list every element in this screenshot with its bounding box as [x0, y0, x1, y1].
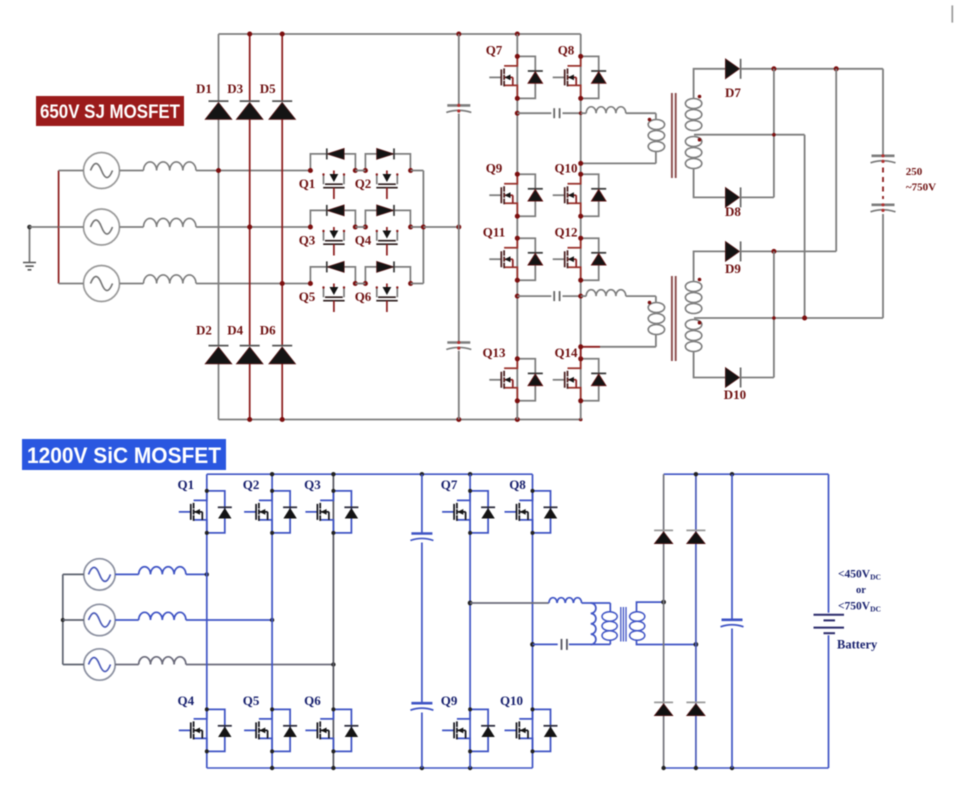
wire phase to leg — [186, 664, 334, 666]
MOSFET Q10 (bottom) — [505, 709, 558, 751]
svg-text:~750V: ~750V — [906, 182, 936, 194]
wire midpoint to C9 — [533, 643, 558, 645]
wire column D3/D4 — [249, 34, 251, 420]
T1 primary polarity dot — [648, 118, 652, 122]
node — [578, 54, 583, 59]
wire output cap to minus — [882, 214, 884, 318]
node — [578, 172, 583, 177]
wire C4 to leg B2 — [563, 295, 582, 297]
svg-text:250: 250 — [906, 166, 923, 178]
wire leg column Q2/Q5 — [271, 474, 273, 768]
title label 1200V SiC MOSFET — [22, 439, 226, 470]
wire D8 to rail riser — [741, 69, 774, 198]
wire — [59, 226, 84, 228]
capacitor C4 (series) — [553, 291, 555, 301]
capacitor C8 (DC link bottom) — [411, 702, 432, 705]
wire phase to rectifier bus — [196, 170, 310, 172]
wire bottom DC rail (bottom circuit) — [207, 767, 533, 769]
junction — [456, 225, 461, 230]
svg-text:D10: D10 — [724, 387, 746, 402]
wire rectifier top rail — [664, 473, 829, 475]
bidirectional switch Q3 cell — [310, 205, 355, 256]
capacitor C3 (series) — [553, 108, 555, 118]
wire leg column Q7/Q9 — [469, 474, 471, 768]
svg-text:Q14: Q14 — [554, 345, 578, 360]
wire — [63, 573, 84, 575]
wire filter cap column — [731, 474, 733, 768]
wire rectifier bottom rail — [664, 767, 829, 769]
node — [531, 489, 535, 493]
capacitor C10 (output filter) — [722, 618, 743, 621]
node leg B1 return — [578, 161, 583, 166]
wire center-tap riser — [804, 135, 806, 318]
wire phase to leg — [186, 619, 272, 621]
junction — [771, 66, 776, 71]
wire leg A2 to C4 — [517, 295, 551, 297]
MOSFET Q8 — [553, 56, 607, 98]
screen edge artifact — [951, 5, 953, 22]
wire leg A1 to C3 — [517, 112, 551, 114]
node — [205, 489, 209, 493]
svg-text:D6: D6 — [260, 323, 276, 338]
diode D2 — [209, 345, 229, 347]
MOSFET Q13 — [489, 359, 543, 401]
svg-text:Q10: Q10 — [554, 161, 577, 176]
diode D9 — [725, 241, 739, 261]
MOSFET Q11 — [489, 238, 543, 280]
junction — [363, 225, 368, 230]
MOSFET Q5 (bottom) — [244, 709, 297, 751]
inductor L1 (top) — [144, 162, 196, 171]
wire T2 center tap to output minus — [694, 317, 883, 319]
wire C9 to tank — [569, 643, 610, 645]
MOSFET Q7 (bottom) — [442, 491, 495, 533]
wire to L7 — [581, 112, 587, 114]
wire leg column Q8/Q10 — [532, 474, 534, 768]
node leg Q8/Q10 midpoint — [530, 642, 535, 647]
MOSFET Q7 — [489, 56, 543, 98]
junction — [308, 168, 313, 173]
title label 650V SJ MOSFET — [36, 96, 184, 126]
node bridge leg A1 — [515, 111, 520, 116]
wire D7 output rail — [741, 68, 883, 70]
bidirectional switch Q2 cell — [365, 148, 410, 199]
node — [331, 707, 335, 711]
svg-text:Q5: Q5 — [299, 289, 316, 304]
svg-text:Q5: Q5 — [243, 693, 260, 708]
wire T1 primary return to leg B1 — [581, 162, 656, 164]
wire T2 secondary top to D9 — [694, 251, 726, 281]
wire rectifier column 1 — [663, 474, 665, 768]
AC source V2 (bottom) — [84, 604, 115, 635]
MOSFET Q12 — [553, 238, 607, 280]
wire T1 secondary bottom to D8 — [694, 169, 726, 198]
diode D10 — [725, 368, 739, 388]
node — [515, 54, 520, 59]
wire T2 secondary bottom to D10 — [694, 352, 726, 378]
capacitor C9 (resonant series) — [561, 639, 563, 650]
node leg Q7/Q9 midpoint — [468, 601, 473, 606]
svg-text:D1: D1 — [196, 81, 212, 96]
wire source left bus (bottom) — [62, 574, 64, 664]
svg-text:D2: D2 — [196, 323, 212, 338]
wire L8 to T2 primary — [626, 296, 656, 302]
wire L7 to T1 primary — [626, 113, 656, 119]
junction — [308, 281, 313, 286]
svg-text:D3: D3 — [227, 81, 243, 96]
diode rectifier bottom — [654, 701, 673, 703]
wire C3 to leg B1 — [563, 112, 582, 114]
svg-text:Q8: Q8 — [558, 43, 575, 58]
inductor L7 (series) — [586, 107, 626, 113]
battery BT1 — [814, 614, 845, 616]
transformer T2 primary winding — [648, 303, 664, 313]
inductor L2 (top) — [144, 218, 196, 227]
wire T1 secondary top to D7 — [694, 69, 726, 99]
wire column Q8/Q10/Q12/Q14 — [580, 34, 582, 420]
svg-text:Q4: Q4 — [177, 693, 194, 708]
wire DC-link bus — [458, 34, 460, 420]
junction dots rect rails — [694, 472, 698, 476]
bidirectional switch Q4 cell — [365, 205, 410, 256]
svg-text:Q8: Q8 — [509, 477, 526, 492]
svg-text:D8: D8 — [725, 204, 741, 219]
diode rectifier top — [654, 529, 673, 531]
svg-text:Q1: Q1 — [177, 477, 194, 492]
junction dots rails — [270, 472, 274, 476]
wire — [59, 283, 84, 285]
inductor L5 (parallel/magnetizing) — [591, 603, 596, 645]
wire — [120, 283, 144, 285]
node — [515, 236, 520, 241]
inductor L3 (bottom) — [139, 657, 186, 665]
diode D5 — [272, 100, 292, 102]
svg-text:Q2: Q2 — [355, 176, 372, 191]
AC source V3 (bottom) — [84, 649, 115, 680]
MOSFET Q8 (bottom) — [505, 491, 558, 533]
svg-text:D7: D7 — [725, 85, 741, 100]
wire midpoint to resonant L — [470, 602, 549, 604]
wire dashed link — [882, 168, 884, 200]
transformer T1 primary winding — [648, 120, 664, 130]
AC source V1 (bottom) — [84, 559, 115, 590]
node leg B2 return — [578, 344, 583, 349]
inductor L8 (series) — [586, 290, 626, 296]
wire — [63, 664, 84, 666]
wire leg column Q3/Q6 — [332, 474, 334, 768]
svg-text:D5: D5 — [260, 81, 276, 96]
bidirectional switch Q5 cell — [310, 261, 355, 312]
node ground tap — [27, 225, 32, 230]
MOSFET Q10 — [553, 174, 607, 216]
node — [270, 489, 274, 493]
wire — [63, 619, 84, 621]
wire D10 to riser — [741, 251, 774, 377]
svg-text:Q2: Q2 — [243, 477, 260, 492]
T2 primary polarity dot — [648, 301, 652, 305]
svg-text:Q10: Q10 — [500, 693, 523, 708]
svg-text:Q11: Q11 — [483, 225, 505, 240]
wire ground to source bus — [30, 226, 59, 228]
svg-text:Q3: Q3 — [299, 233, 316, 248]
svg-text:Q1: Q1 — [299, 176, 316, 191]
svg-text:Q7: Q7 — [441, 477, 458, 492]
capacitor C2 (DC link bottom) — [447, 341, 470, 344]
diode rectifier top — [686, 529, 705, 531]
node — [331, 489, 335, 493]
junction phase-leg — [270, 618, 274, 622]
node — [578, 356, 583, 361]
AC source V3 (top) — [84, 266, 120, 302]
node — [531, 707, 535, 711]
junction ct1 cross — [772, 133, 776, 137]
diode D7 — [725, 59, 739, 79]
bidirectional switch Q1 cell — [310, 148, 355, 199]
svg-text:Q7: Q7 — [486, 43, 503, 58]
wire phase to rectifier bus — [196, 226, 310, 228]
junction — [363, 281, 368, 286]
transformer T1 secondary winding — [685, 99, 701, 109]
capacitor C5 (output top) — [872, 155, 895, 158]
wire cell to output bus — [411, 283, 424, 285]
MOSFET Q6 (bottom) — [305, 709, 358, 751]
wire source left bus — [58, 171, 60, 284]
junction — [363, 168, 368, 173]
wire matrix output bus — [422, 171, 424, 284]
svg-text:Q13: Q13 — [482, 345, 506, 360]
bidirectional switch Q6 cell — [365, 261, 410, 312]
wire column D5/D6 — [281, 34, 283, 420]
junction dots top rail — [247, 32, 252, 37]
wire top DC rail (bottom circuit) — [207, 473, 533, 475]
node leg B1 cross — [579, 111, 583, 115]
transformer T1 core — [672, 93, 676, 178]
wire — [59, 170, 84, 172]
junction phase-column — [247, 225, 252, 230]
node bridge leg A2 — [515, 294, 520, 299]
wire — [115, 664, 139, 666]
capacitor C7 (DC link top) — [411, 532, 432, 535]
transformer T2 secondary winding — [685, 282, 701, 292]
wire top DC rail — [219, 33, 581, 35]
diode D1 — [209, 100, 229, 102]
junction ct joints — [772, 316, 776, 320]
svg-text:D9: D9 — [725, 261, 741, 276]
wire cell to output bus — [411, 226, 424, 228]
svg-text:Q9: Q9 — [441, 693, 458, 708]
svg-text:Q6: Q6 — [304, 693, 321, 708]
wire cell to output bus — [411, 170, 424, 172]
junction dots bottom rail — [247, 417, 252, 422]
wire column Q7/Q9/Q11/Q13 — [516, 34, 518, 420]
MOSFET Q1 (bottom) — [179, 491, 232, 533]
wire — [115, 619, 139, 621]
wire cell link — [355, 170, 365, 172]
svg-text:Q12: Q12 — [554, 225, 577, 240]
junction — [61, 618, 65, 622]
junction — [771, 249, 776, 254]
inductor L4 (resonant series) — [549, 598, 582, 603]
svg-text:Battery: Battery — [837, 637, 878, 651]
svg-text:1200V SiC MOSFET: 1200V SiC MOSFET — [27, 443, 222, 468]
MOSFET Q4 (bottom) — [179, 709, 232, 751]
wire phase to leg — [186, 573, 207, 575]
diode rectifier bottom — [686, 701, 705, 703]
wire D9 output — [741, 69, 837, 252]
diode D6 — [272, 345, 292, 347]
junction phase-column — [216, 168, 221, 173]
MOSFET Q14 — [553, 359, 607, 401]
diode D8 — [725, 187, 739, 207]
node — [205, 707, 209, 711]
svg-text:Q9: Q9 — [486, 161, 503, 176]
junction phase-leg — [331, 662, 335, 666]
wire cell link — [355, 283, 365, 285]
wire battery column — [828, 474, 830, 768]
AC source V1 (top) — [84, 153, 120, 189]
node — [515, 356, 520, 361]
wire DC link column (bottom) — [421, 474, 423, 768]
node leg B2 cross — [578, 294, 583, 299]
svg-text:Q6: Q6 — [355, 289, 372, 304]
node — [515, 172, 520, 177]
wire output bus to DC-link — [423, 226, 458, 228]
wire — [120, 170, 144, 172]
node — [578, 236, 583, 241]
MOSFET Q9 — [489, 174, 543, 216]
T2 secondary polarity dots — [698, 278, 702, 282]
wire phase to rectifier bus — [196, 283, 310, 285]
MOSFET Q9 (bottom) — [442, 709, 495, 751]
diode D3 — [240, 100, 260, 102]
AC source V2 (top) — [84, 209, 120, 245]
svg-text:Q4: Q4 — [355, 233, 372, 248]
junction secondary taps — [661, 600, 666, 605]
wire column D1/D2 — [218, 34, 220, 420]
junction phase-leg — [205, 572, 209, 576]
MOSFET Q2 (bottom) — [244, 491, 297, 533]
svg-text:650V SJ MOSFET: 650V SJ MOSFET — [40, 101, 180, 123]
wire bottom DC rail — [219, 419, 581, 421]
node — [468, 707, 472, 711]
wire T1 center tap — [694, 134, 805, 136]
wire cell link — [355, 226, 365, 228]
wire — [115, 573, 139, 575]
transformer T3 primary — [609, 603, 611, 612]
transformer T2 core — [672, 276, 676, 361]
MOSFET Q3 (bottom) — [305, 491, 358, 533]
wire — [120, 226, 144, 228]
capacitor C6 (output bottom) — [872, 204, 895, 207]
svg-text:Q3: Q3 — [304, 477, 321, 492]
junction phase-column — [280, 281, 285, 286]
wire leg column Q1/Q4 — [206, 474, 208, 768]
wire T2 primary return to leg B2 — [600, 346, 656, 348]
ground — [29, 227, 31, 263]
inductor L2 (bottom) — [139, 612, 186, 620]
transformer T3 core — [621, 607, 626, 642]
inductor L1 (bottom) — [139, 567, 186, 575]
capacitor C1 (DC link top) — [447, 104, 470, 107]
svg-text:D4: D4 — [227, 323, 243, 338]
diode D4 — [240, 345, 260, 347]
junction — [308, 225, 313, 230]
inductor L3 (top) — [144, 275, 196, 284]
wire rectifier column 2 — [695, 474, 697, 768]
node — [468, 489, 472, 493]
svg-text:or: or — [856, 585, 866, 596]
wire output plus drop — [882, 69, 884, 156]
transformer T3 secondary — [637, 602, 664, 611]
wire L4 to tank — [582, 602, 611, 604]
junction output bus — [421, 225, 426, 230]
node — [270, 707, 274, 711]
T1 secondary polarity dots — [698, 95, 702, 99]
wire to L8 — [581, 295, 587, 297]
